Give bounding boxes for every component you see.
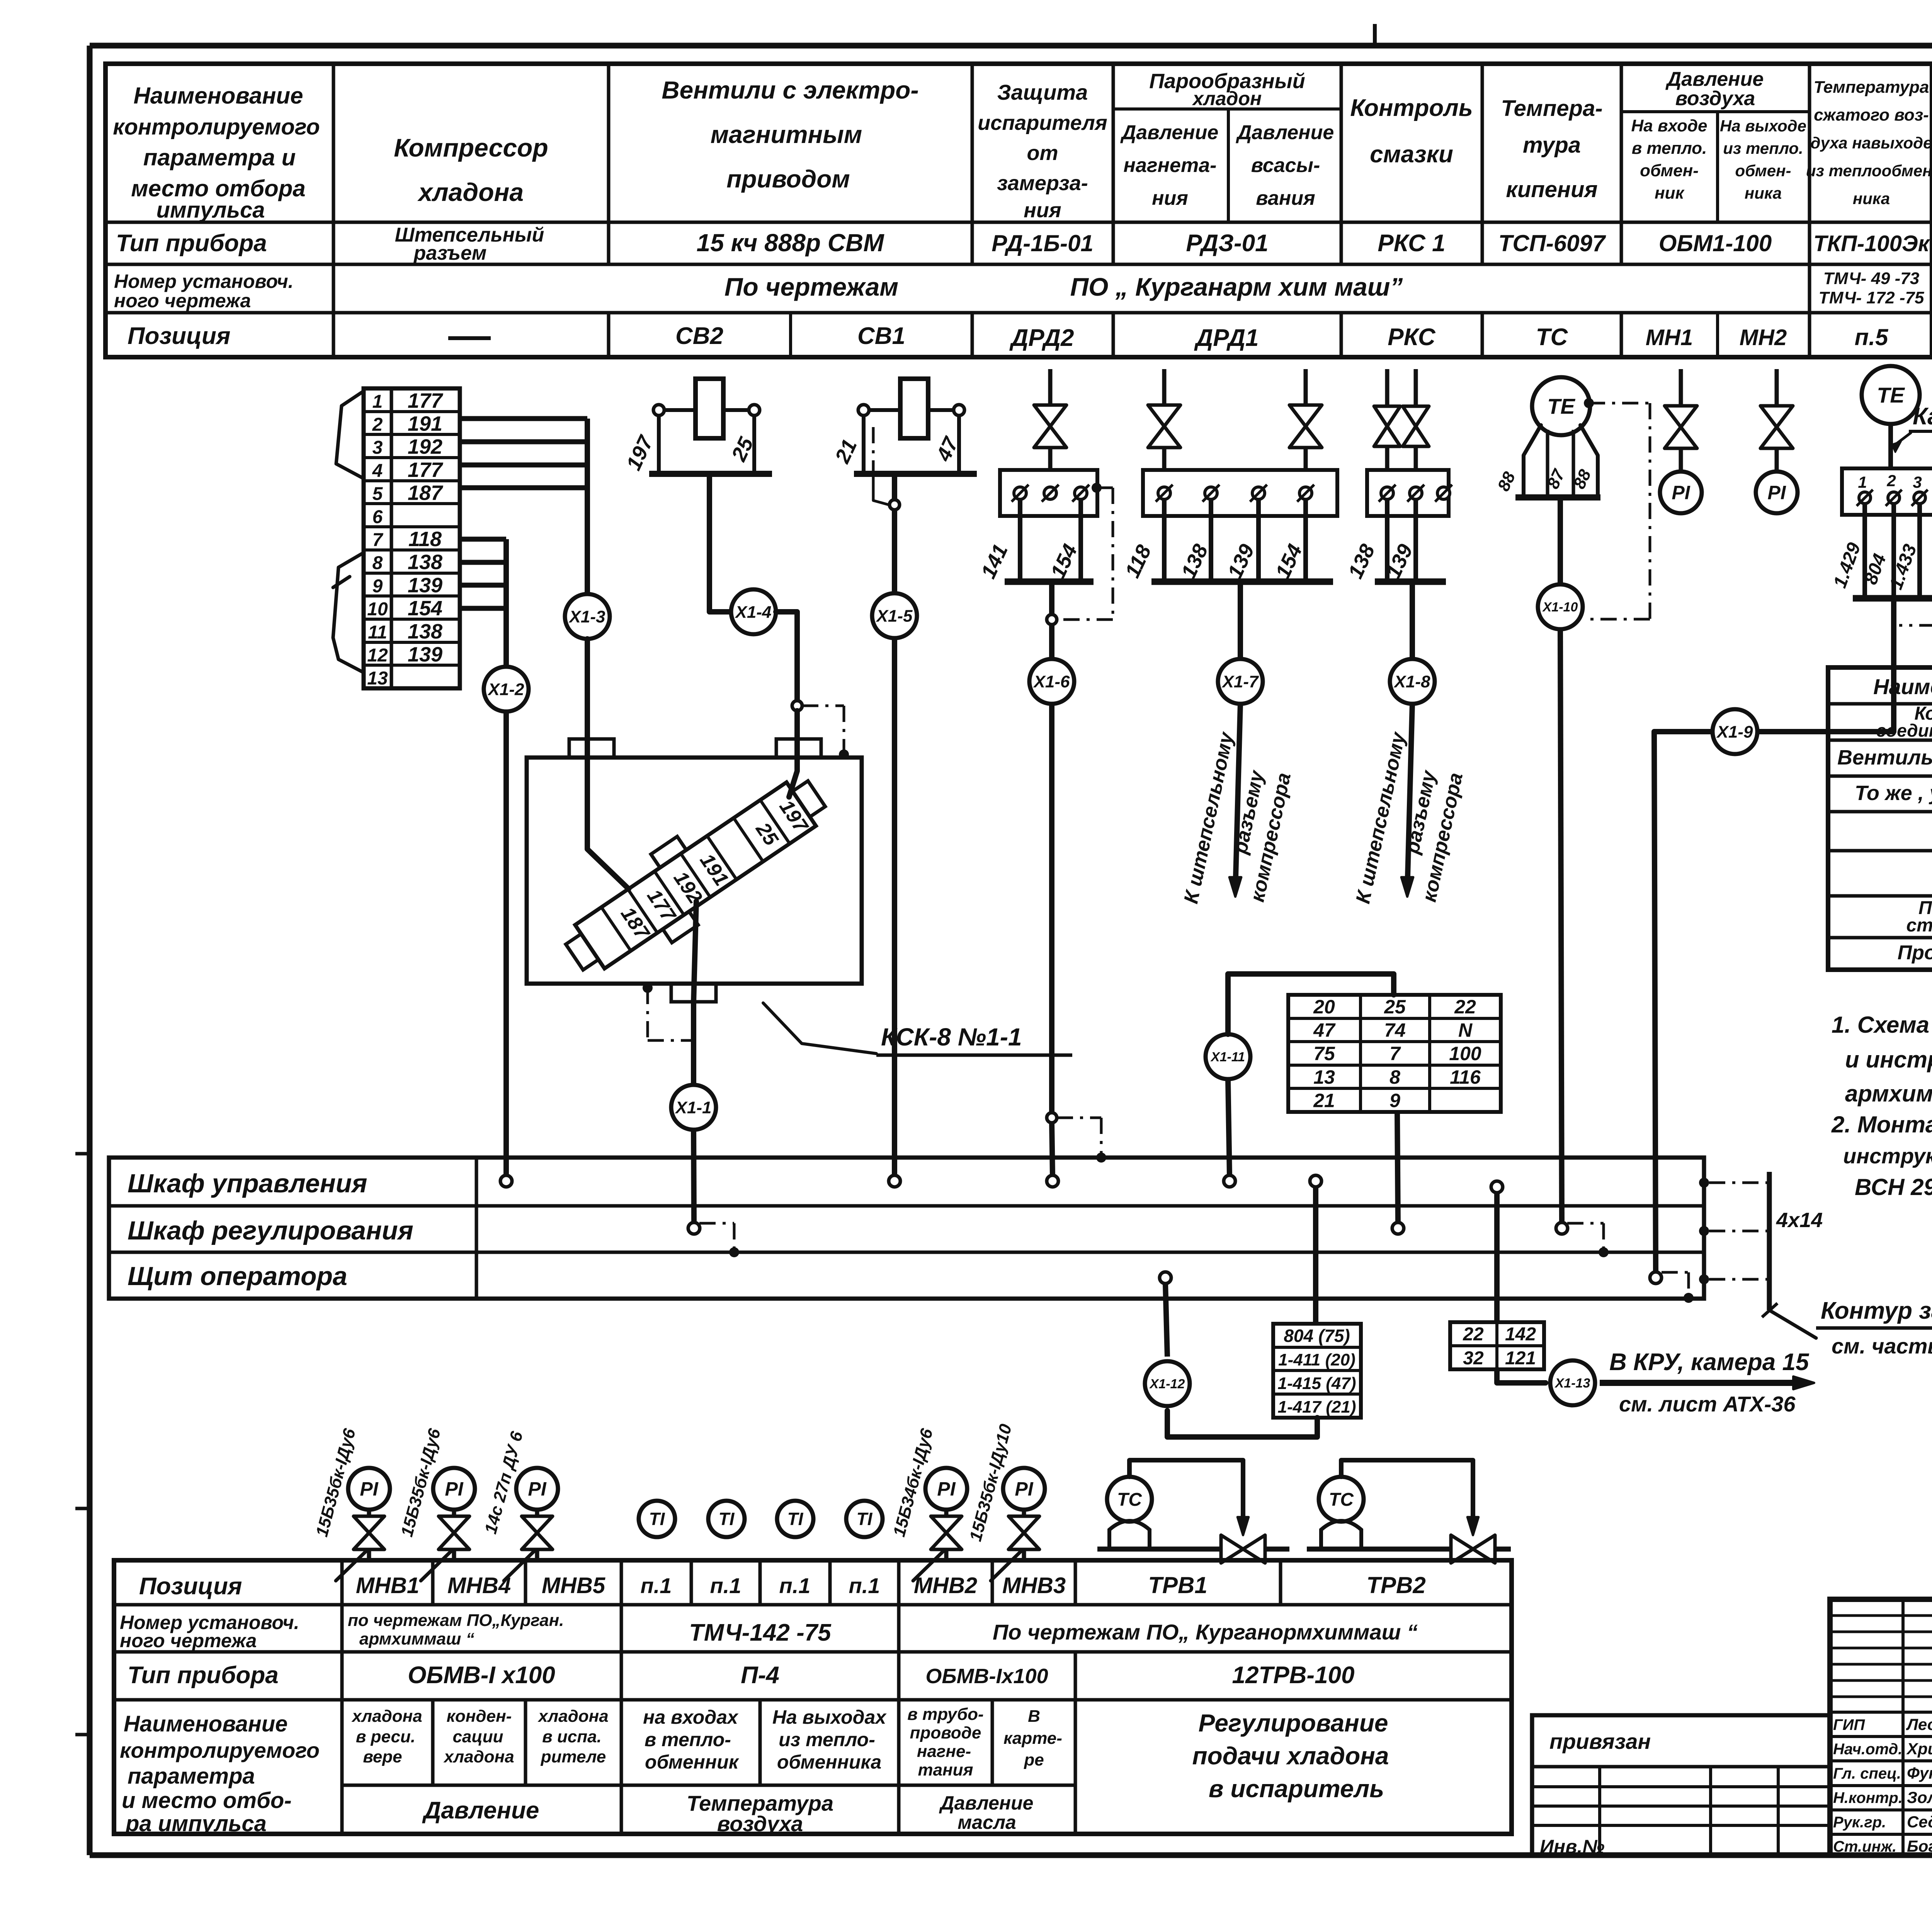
dash-dot stub at SV1 <box>873 427 889 505</box>
svg-text:32: 32 <box>1463 1348 1484 1369</box>
svg-text:кипения: кипения <box>1506 177 1597 202</box>
junction box JB1 <box>1000 470 1097 516</box>
svg-text:из теплообмен.: из теплообмен. <box>1806 162 1932 180</box>
svg-text:КСК-8 №1-1: КСК-8 №1-1 <box>881 1023 1022 1051</box>
svg-text:и место отбо-: и место отбо- <box>122 1788 292 1813</box>
svg-text:В: В <box>1028 1707 1040 1726</box>
svg-text:армхиммаш “: армхиммаш “ <box>359 1629 474 1648</box>
svg-text:МНВ3: МНВ3 <box>1002 1573 1066 1598</box>
svg-text:Номер установоч.: Номер установоч. <box>114 271 294 292</box>
svg-text:X1-5: X1-5 <box>876 606 913 625</box>
connector X1-11 <box>1206 1034 1250 1079</box>
svg-text:TI: TI <box>857 1509 873 1529</box>
svg-text:Фукс: Фукс <box>1907 1764 1932 1782</box>
svg-text:TI: TI <box>719 1509 735 1529</box>
wire X1-13 to KRU with arrow <box>1600 1349 1814 1416</box>
svg-text:На выходах: На выходах <box>772 1706 887 1728</box>
svg-text:хладона: хладона <box>537 1707 608 1726</box>
svg-text:X1-7: X1-7 <box>1221 672 1259 691</box>
svg-text:Давление: Давление <box>422 1797 539 1824</box>
svg-text:804 (75): 804 (75) <box>1284 1326 1350 1346</box>
svg-text:Компрессор: Компрессор <box>394 133 548 162</box>
dash-dot below KCK-8 <box>643 983 692 1040</box>
connector X1-6 <box>1029 659 1074 704</box>
svg-text:177: 177 <box>408 389 444 412</box>
wire table to regulation cabinet <box>1397 1112 1398 1223</box>
svg-text:обменник: обменник <box>645 1751 740 1773</box>
svg-text:Гл. спец.: Гл. спец. <box>1833 1765 1901 1782</box>
connector X1-9 <box>1713 709 1757 754</box>
wire X1-2 to control cabinet <box>503 712 509 1176</box>
pressure gauge PI2 <box>1756 472 1798 513</box>
shut-off valve above JB1 <box>1034 369 1066 470</box>
valve above PI gauge 2 <box>1760 369 1793 472</box>
pressure gauge PI1 <box>1660 472 1702 513</box>
svg-text:138: 138 <box>408 551 442 574</box>
svg-text:в испа.: в испа. <box>542 1727 602 1746</box>
svg-text:стальная: стальная <box>1906 915 1932 936</box>
svg-text:6: 6 <box>372 507 383 527</box>
svg-text:TE: TE <box>1547 394 1575 419</box>
wire X1-12 to operator panel <box>1165 1284 1167 1357</box>
svg-text:Золотарева: Золотарева <box>1907 1788 1932 1806</box>
temperature indicator TI4 <box>846 1501 883 1537</box>
svg-text:воздуха: воздуха <box>717 1811 803 1836</box>
svg-text:из тепло-: из тепло- <box>779 1729 875 1750</box>
svg-text:ника: ника <box>1853 189 1890 208</box>
svg-text:Капилляр: Капилляр <box>1913 403 1932 430</box>
pressure gauge PI with valve 15Б35бк-IДу6 <box>312 1427 390 1581</box>
svg-text:1: 1 <box>372 392 383 412</box>
dash-dot jog X1-1 terminal <box>699 1223 739 1257</box>
svg-text:Тип прибора: Тип прибора <box>128 1662 279 1689</box>
svg-text:МНВ1: МНВ1 <box>356 1573 419 1598</box>
svg-text:TC: TC <box>1329 1490 1354 1510</box>
svg-text:см. часть „ЭМ“: см. часть „ЭМ“ <box>1832 1334 1932 1358</box>
svg-text:от: от <box>1027 141 1058 165</box>
svg-text:воздуха: воздуха <box>1675 87 1755 110</box>
svg-text:Контроль: Контроль <box>1350 95 1473 121</box>
svg-text:По чертежам: По чертежам <box>724 272 898 301</box>
svg-text:197: 197 <box>622 431 658 474</box>
svg-text:в трубо-: в трубо- <box>907 1705 983 1724</box>
svg-text:ТСП-6097: ТСП-6097 <box>1498 230 1606 256</box>
svg-text:контролируемого: контролируемого <box>113 114 320 140</box>
svg-text:PI: PI <box>528 1478 546 1500</box>
svg-text:X1-4: X1-4 <box>735 603 772 621</box>
svg-text:вере: вере <box>363 1747 402 1766</box>
svg-text:параметра и: параметра и <box>143 145 296 170</box>
svg-text:4: 4 <box>372 461 383 481</box>
wire rows 2-5 to X1-3 <box>460 419 587 594</box>
wire X1-7 arrow to compressor plug <box>1180 704 1295 906</box>
svg-text:TE: TE <box>1877 383 1905 407</box>
svg-text:139: 139 <box>408 574 442 597</box>
svg-text:3: 3 <box>372 438 383 458</box>
svg-text:инструкции по монтажу зашитн: инструкции по монтажу зашитного заземлен… <box>1843 1144 1932 1168</box>
dash-dot TE2 box <box>1899 493 1932 625</box>
ground loop pointer <box>1762 1297 1932 1358</box>
svg-text:РКС 1: РКС 1 <box>1378 230 1445 257</box>
svg-text:12: 12 <box>367 645 388 666</box>
svg-text:X1-12: X1-12 <box>1149 1377 1185 1391</box>
JB1 wires to bus <box>976 499 1094 582</box>
top table column headers text <box>113 68 1932 223</box>
pressure gauge PI with valve 15Б35бк-IДу10 <box>966 1422 1045 1581</box>
svg-text:приводом: приводом <box>726 165 850 193</box>
svg-text:ТС: ТС <box>1536 324 1568 351</box>
svg-text:импульса: импульса <box>156 197 265 223</box>
svg-text:Давление: Давление <box>1120 121 1219 144</box>
svg-text:25: 25 <box>751 818 783 850</box>
svg-text:1.433: 1.433 <box>1886 541 1921 592</box>
junction box KCK-8 N1-1 outline <box>527 739 862 1002</box>
svg-text:4х14: 4х14 <box>1776 1209 1823 1232</box>
svg-text:По чертежам ПО„ Курганормхимм: По чертежам ПО„ Курганормхиммаш “ <box>993 1620 1418 1644</box>
temperature element TE1 <box>1532 377 1590 435</box>
svg-text:магнитным: магнитным <box>711 121 862 148</box>
temperature indicator TI1 <box>639 1501 675 1537</box>
wire rows 7-10 to X1-2 <box>460 539 506 667</box>
svg-text:121: 121 <box>1505 1348 1536 1369</box>
svg-text:В КРУ, камера 15: В КРУ, камера 15 <box>1609 1349 1810 1376</box>
svg-text:12ТРВ-100: 12ТРВ-100 <box>1232 1662 1354 1689</box>
wire allocation table 3col <box>1288 995 1501 1112</box>
svg-text:тания: тания <box>918 1760 973 1779</box>
svg-text:PI: PI <box>1767 482 1786 504</box>
svg-text:п.5: п.5 <box>1855 324 1889 350</box>
cabinet rows band <box>109 1158 1704 1299</box>
wire JB1 bus to X1-6 <box>1049 582 1054 614</box>
svg-text:139: 139 <box>408 643 442 666</box>
bottom table texts <box>120 1572 1426 1836</box>
svg-text:ник: ник <box>1655 184 1685 203</box>
svg-text:7: 7 <box>1389 1043 1401 1064</box>
svg-text:хладона: хладона <box>417 178 524 206</box>
specification table <box>1828 667 1932 970</box>
connector X1-13 <box>1550 1360 1595 1405</box>
pressure gauge PI with valve 15Б34бк-IДу6 <box>889 1427 967 1581</box>
svg-text:Позиция: Позиция <box>128 323 230 349</box>
connector X1-5 <box>872 593 917 638</box>
wire X1-1 to regulation cabinet <box>694 1130 694 1223</box>
svg-text:сации: сации <box>452 1727 503 1746</box>
svg-text:PI: PI <box>360 1478 378 1500</box>
wire X1-6 to control cabinet <box>1049 704 1054 1112</box>
svg-text:см. лист АТХ-36: см. лист АТХ-36 <box>1619 1392 1796 1416</box>
svg-text:тура: тура <box>1523 133 1581 158</box>
svg-text:PI: PI <box>937 1478 956 1500</box>
rotated terminal strip inside KCK-8 <box>551 758 840 992</box>
svg-text:Шкаф управления: Шкаф управления <box>128 1169 367 1198</box>
svg-text:1. Схема выполнена на основан: 1. Схема выполнена на основании „Техниче… <box>1832 1012 1932 1038</box>
temperature element TE2 <box>1862 366 1920 424</box>
top table row: position <box>128 323 1889 351</box>
svg-text:хладона: хладона <box>351 1707 422 1726</box>
svg-text:ОБМВ-Iх100: ОБМВ-Iх100 <box>925 1665 1048 1688</box>
svg-text:Контур заземления: Контур заземления <box>1821 1297 1932 1324</box>
svg-text:116: 116 <box>1450 1066 1481 1088</box>
svg-text:ГИП: ГИП <box>1833 1716 1865 1733</box>
svg-text:154: 154 <box>1046 541 1082 582</box>
temperature controller TC2 with control valve TRV2 <box>1307 1460 1511 1563</box>
svg-text:на входах: на входах <box>643 1706 739 1728</box>
svg-text:9: 9 <box>372 576 383 596</box>
node on X1-4 wire <box>792 701 802 711</box>
svg-text:смазки: смазки <box>1370 141 1453 168</box>
svg-text:параметра: параметра <box>128 1764 255 1789</box>
svg-text:СВ1: СВ1 <box>857 323 905 349</box>
svg-text:141: 141 <box>976 541 1012 582</box>
svg-text:ника: ника <box>1745 184 1782 202</box>
svg-text:ДРД2: ДРД2 <box>1009 325 1074 351</box>
svg-text:177: 177 <box>408 458 444 482</box>
svg-text:47: 47 <box>1313 1020 1336 1041</box>
wire X1-11 to wire table <box>1228 974 1394 1034</box>
svg-text:и инструкции по эксплуатации: и инструкции по эксплуатации ОВМ 15.РЭ П… <box>1845 1047 1932 1073</box>
svg-text:п.1: п.1 <box>710 1573 742 1598</box>
svg-text:PI: PI <box>445 1478 463 1500</box>
svg-text:ТМЧ- 172 -75: ТМЧ- 172 -75 <box>1819 288 1924 307</box>
svg-text:74: 74 <box>1384 1020 1406 1041</box>
svg-text:ния: ния <box>1152 187 1188 209</box>
notes text <box>1831 1012 1932 1200</box>
svg-text:138: 138 <box>1344 541 1379 582</box>
svg-text:TI: TI <box>649 1509 665 1529</box>
svg-text:ТРВ2: ТРВ2 <box>1366 1572 1425 1598</box>
svg-text:На выходе: На выходе <box>1720 117 1806 135</box>
svg-text:22: 22 <box>1463 1324 1484 1345</box>
svg-text:Шкаф регулирования: Шкаф регулирования <box>128 1216 413 1245</box>
svg-text:187: 187 <box>408 482 444 505</box>
svg-text:вания: вания <box>1256 187 1315 209</box>
svg-text:Наименование: Наименование <box>124 1711 287 1737</box>
svg-text:142: 142 <box>1505 1324 1536 1345</box>
svg-text:п.1: п.1 <box>779 1573 811 1598</box>
svg-text:МНВ4: МНВ4 <box>447 1573 511 1598</box>
wire strip to X1-1 <box>694 901 696 1085</box>
dash-dot X1-6 node to cabinet <box>1057 1118 1106 1163</box>
svg-text:ТМЧ-142 -75: ТМЧ-142 -75 <box>689 1619 832 1646</box>
node circle on X1-6 wire <box>1047 1113 1057 1123</box>
svg-text:ВСН 296-81 ММСС СССР.: ВСН 296-81 ММСС СССР. <box>1855 1174 1932 1200</box>
svg-text:PI: PI <box>1672 482 1690 504</box>
svg-text:100: 100 <box>1449 1043 1481 1064</box>
wire JB2 bus to X1-7 <box>1238 582 1243 659</box>
cabinet terminals row2 <box>688 1222 1568 1234</box>
svg-text:118: 118 <box>408 528 442 551</box>
svg-text:Наименование: Наименование <box>1873 674 1932 699</box>
svg-text:всасы-: всасы- <box>1251 154 1320 177</box>
svg-text:192: 192 <box>408 435 442 458</box>
dash-dot jog X1-10 terminal <box>1567 1223 1609 1257</box>
svg-text:9: 9 <box>1389 1090 1400 1111</box>
svg-text:ОБМ1-100: ОБМ1-100 <box>1659 230 1772 256</box>
connector X1-12 <box>1145 1361 1190 1406</box>
svg-text:Позиция: Позиция <box>139 1573 242 1600</box>
wire X1-8 arrow to compressor plug <box>1352 704 1467 906</box>
svg-text:конден-: конден- <box>447 1707 512 1726</box>
svg-text:2: 2 <box>372 415 383 435</box>
svg-text:8: 8 <box>1389 1066 1400 1088</box>
svg-text:масла: масла <box>957 1811 1016 1833</box>
svg-text:TC: TC <box>1117 1490 1142 1510</box>
svg-text:7: 7 <box>372 530 384 550</box>
svg-text:25: 25 <box>1384 996 1406 1018</box>
svg-text:рителе: рителе <box>541 1747 606 1766</box>
svg-text:ДРД1: ДРД1 <box>1194 325 1259 351</box>
node above X1-6 <box>1047 615 1057 625</box>
svg-text:МН1: МН1 <box>1646 325 1693 350</box>
svg-text:РКС: РКС <box>1388 324 1436 351</box>
svg-text:Регулирование: Регулирование <box>1198 1709 1388 1737</box>
connector X1-7 <box>1218 659 1263 704</box>
svg-text:привязан: привязан <box>1549 1729 1651 1754</box>
connector shell upper <box>336 391 364 478</box>
svg-text:20: 20 <box>1313 996 1335 1018</box>
svg-text:Леонов: Леонов <box>1906 1715 1932 1733</box>
svg-text:соединительная: соединительная <box>1876 720 1932 741</box>
svg-text:обмен-: обмен- <box>1640 161 1699 180</box>
dash-dot X1-4 to box top <box>802 706 849 759</box>
svg-text:N: N <box>1458 1020 1473 1041</box>
svg-text:ния: ния <box>1024 199 1061 222</box>
top table row: instrument type <box>116 224 1930 264</box>
JB2 wires to bus <box>1121 499 1333 582</box>
svg-text:обмен-: обмен- <box>1735 162 1791 180</box>
svg-text:138: 138 <box>408 620 442 643</box>
svg-text:ОБМВ-I х100: ОБМВ-I х100 <box>408 1662 555 1689</box>
svg-text:Наименование: Наименование <box>133 83 303 109</box>
svg-text:X1-10: X1-10 <box>1542 600 1578 615</box>
wire allocation table 22-142 <box>1450 1322 1544 1369</box>
svg-text:X1-13: X1-13 <box>1554 1376 1590 1391</box>
svg-text:21: 21 <box>830 436 861 467</box>
wire X1-10 to control cabinet <box>1560 629 1562 1223</box>
svg-text:Щит оператора: Щит оператора <box>128 1262 347 1291</box>
top table row: installation drawing number <box>114 269 1924 312</box>
dash-dot JB1 terminal3 <box>1057 483 1113 620</box>
title block <box>1830 1599 1932 1857</box>
svg-text:МН2: МН2 <box>1740 325 1787 350</box>
svg-text:ного чертежа: ного чертежа <box>120 1630 257 1651</box>
svg-text:118: 118 <box>1121 541 1156 581</box>
svg-text:X1-8: X1-8 <box>1393 672 1430 691</box>
svg-text:ТКП-100Эк: ТКП-100Эк <box>1813 231 1930 256</box>
svg-text:TI: TI <box>787 1509 804 1529</box>
svg-text:карте-: карте- <box>1003 1729 1062 1748</box>
svg-text:Вентиль запорный: Вентиль запорный <box>1837 746 1932 769</box>
strip labels <box>616 796 813 944</box>
pressure gauge PI with valve 14с 27п ДУ 6 <box>481 1429 558 1581</box>
svg-text:139: 139 <box>1223 541 1259 582</box>
connector X1-2 <box>484 667 529 712</box>
svg-text:На входе: На входе <box>1631 116 1708 135</box>
svg-text:ра импульса: ра импульса <box>125 1811 267 1836</box>
svg-text:1-411 (20): 1-411 (20) <box>1278 1350 1355 1369</box>
svg-text:Нач.отд.: Нач.отд. <box>1833 1741 1902 1758</box>
svg-text:нагнета-: нагнета- <box>1124 154 1217 177</box>
svg-text:нагне-: нагне- <box>917 1742 971 1761</box>
svg-text:хладона: хладона <box>443 1747 514 1766</box>
shut-off valves above JB3 <box>1374 369 1429 470</box>
svg-text:ного чертежа: ного чертежа <box>114 290 251 312</box>
TE2 box wires to bus <box>1830 504 1932 598</box>
wire into box <box>789 711 797 797</box>
svg-text:Христофоров: Христофоров <box>1906 1740 1932 1758</box>
junction box JB3 <box>1367 470 1452 516</box>
svg-text:75: 75 <box>1313 1043 1335 1064</box>
svg-text:13: 13 <box>1313 1066 1335 1088</box>
svg-text:обменника: обменника <box>777 1751 881 1773</box>
svg-text:154: 154 <box>408 597 442 620</box>
solenoid valve SV1 coil <box>830 379 977 474</box>
wire TE1 vessel to X1-10 <box>1558 497 1563 584</box>
connector X1-3 <box>565 594 610 639</box>
svg-text:сжатого воз-: сжатого воз- <box>1814 106 1929 124</box>
JB3 wires to bus <box>1344 499 1446 582</box>
wire 804 table to X1-12 <box>1167 1411 1317 1437</box>
svg-text:PI: PI <box>1015 1478 1033 1500</box>
capillary label <box>1892 403 1932 452</box>
svg-text:СВ2: СВ2 <box>675 323 723 349</box>
shut-off valves above JB2 <box>1148 369 1322 470</box>
svg-text:15 кч 888р СВМ: 15 кч 888р СВМ <box>696 229 884 257</box>
svg-text:в реси.: в реси. <box>356 1727 415 1746</box>
connector X1-1 <box>671 1085 716 1130</box>
svg-text:Температура: Температура <box>1814 78 1929 97</box>
svg-text:Инв.№: Инв.№ <box>1540 1836 1605 1857</box>
svg-text:проводе: проводе <box>910 1723 981 1742</box>
svg-text:X1-6: X1-6 <box>1033 672 1070 691</box>
inventory side block <box>1532 1715 1830 1857</box>
wire X1-11 to control cabinet <box>1228 1079 1230 1176</box>
connector X1-8 <box>1390 659 1435 704</box>
temperature controller TC1 with control valve TRV1 <box>1097 1460 1289 1563</box>
svg-text:контролируемого: контролируемого <box>120 1738 320 1762</box>
svg-text:Давление: Давление <box>939 1792 1034 1814</box>
svg-text:1-417 (21): 1-417 (21) <box>1277 1398 1356 1416</box>
svg-text:Давление: Давление <box>1236 121 1334 144</box>
svg-text:ПО „ Курганарм хим маш”: ПО „ Курганарм хим маш” <box>1070 272 1403 301</box>
svg-text:РД-1Б-01: РД-1Б-01 <box>992 230 1094 256</box>
svg-text:п.1: п.1 <box>849 1573 880 1598</box>
svg-text:2: 2 <box>1886 472 1896 490</box>
svg-text:Защита: Защита <box>997 80 1088 104</box>
connector X1-10 <box>1538 584 1583 629</box>
svg-text:Темпера-: Темпера- <box>1501 96 1602 121</box>
terminal wire to 22-142 table <box>1491 1181 1503 1322</box>
svg-text:МНВ5: МНВ5 <box>542 1573 605 1598</box>
svg-text:П-4: П-4 <box>741 1662 779 1689</box>
svg-text:10: 10 <box>367 599 388 620</box>
cabinet terminals row1 <box>500 1175 1235 1187</box>
temperature indicator TI2 <box>708 1501 745 1537</box>
solenoid valve SV2 coil <box>622 379 772 474</box>
cable 4x14 to ground loop <box>1699 1172 1823 1310</box>
wire JB3 bus to X1-8 <box>1410 582 1415 659</box>
svg-text:5: 5 <box>372 484 383 504</box>
svg-text:Боговский: Боговский <box>1907 1837 1932 1855</box>
terminal block XT compressor connector <box>364 388 460 689</box>
svg-text:Ст.инж.: Ст.инж. <box>1833 1838 1896 1855</box>
wire to X1-13 <box>1497 1369 1546 1383</box>
svg-text:X1-11: X1-11 <box>1210 1050 1245 1064</box>
svg-text:191: 191 <box>408 412 442 436</box>
svg-text:в тепло.: в тепло. <box>1632 139 1707 158</box>
svg-text:3: 3 <box>1913 473 1922 491</box>
svg-text:испарителя: испарителя <box>978 111 1107 134</box>
